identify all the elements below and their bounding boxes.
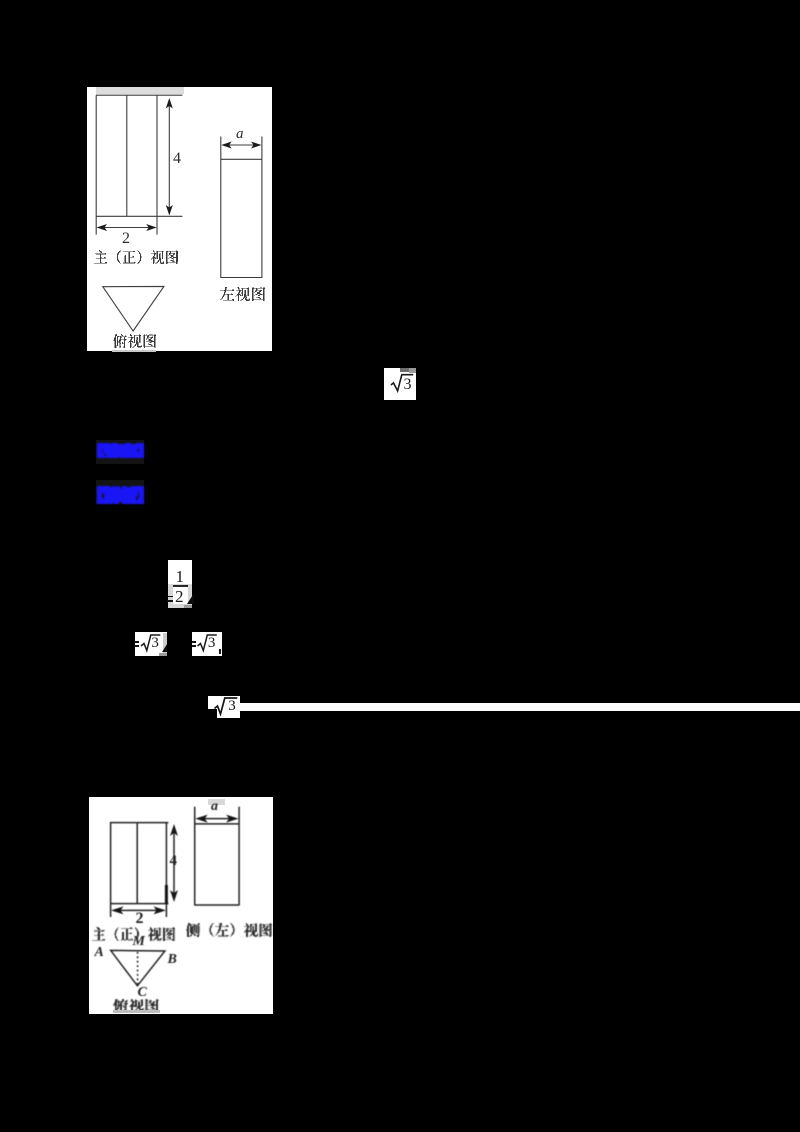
black wedge fragment (angle A) at right <box>187 594 194 604</box>
dark notch bottom-left <box>208 709 217 718</box>
fig2 front view right side <box>165 823 167 917</box>
fig2 side view top line <box>194 823 238 825</box>
fig2 dim line 4 vertical <box>173 829 175 897</box>
scan artifact gray strip <box>96 87 184 94</box>
lower gray half <box>168 584 192 608</box>
equals sign fragment at left <box>167 596 173 598</box>
side view bottom line <box>221 277 262 279</box>
blue text da-an <box>97 443 144 458</box>
dim line 2 horizontal <box>101 227 153 229</box>
equals fragment left <box>134 641 139 643</box>
arrowhead 2 right <box>146 224 157 231</box>
arrowhead a right <box>251 142 262 149</box>
label top-view fig2 <box>113 999 159 1011</box>
fig2 front view middle line <box>136 823 138 904</box>
fig2 dim line a horizontal <box>199 818 235 820</box>
label left-view (zuoshitu) fig1 <box>220 287 265 301</box>
fig2 dim line 2 horizontal <box>115 910 162 912</box>
fig2 arrowhead a left <box>195 815 208 823</box>
denominator 2 <box>175 587 184 607</box>
fig2 right side thick lower segment <box>164 885 167 904</box>
side view left line <box>220 137 222 279</box>
dim line 4 vertical <box>168 104 170 211</box>
dim line a horizontal <box>226 144 257 146</box>
arrowhead 4 up <box>166 98 173 109</box>
fig2 front view bottom line <box>109 903 167 905</box>
front view top line <box>96 94 182 96</box>
figure 1: three-view drawing image (top) <box>87 87 272 351</box>
blue text jie-xi <box>97 486 144 504</box>
fig2 side view right line <box>238 807 240 906</box>
fig2 label A <box>95 945 104 961</box>
front view right side <box>156 95 158 234</box>
gray underline under fushitu fig2 <box>113 1010 160 1013</box>
fig2 arrowhead 4 up <box>170 824 178 836</box>
formula image sqrt(3) no.4 <box>208 696 240 719</box>
fig2 label B <box>168 952 177 968</box>
equals fragment left <box>192 641 197 643</box>
fig2 label 4 <box>170 853 178 870</box>
bottom right gray <box>159 653 167 657</box>
formula image sqrt(3) no.3 with = fragment <box>192 632 221 656</box>
long white horizontal bar <box>240 703 800 711</box>
gray smudge above label a fig2 <box>208 799 225 805</box>
gray patch right <box>163 633 167 653</box>
analysis tag box (jie-xi) blue <box>96 480 144 504</box>
fig2 label C <box>138 985 147 1001</box>
answer tag box (da-an) blue <box>96 440 144 465</box>
arrowhead 4 down <box>166 205 173 216</box>
formula image sqrt(3) no.1 <box>384 368 416 401</box>
fraction bar <box>173 585 188 587</box>
front view middle line <box>126 95 128 216</box>
top view triangle <box>103 286 164 331</box>
arrowhead a left <box>221 142 232 149</box>
formula image sqrt(3) no.2 with = fragment <box>135 632 167 656</box>
fig2 front view left side <box>109 823 111 917</box>
label 4 <box>173 150 181 168</box>
bottom right gray patch <box>184 605 192 609</box>
fig2 dotted median M to C <box>136 952 138 985</box>
fig2 label a <box>211 799 218 815</box>
front view left side <box>95 95 97 234</box>
label 2 <box>122 230 130 248</box>
label a <box>236 126 244 143</box>
arrowhead 2 left <box>97 224 108 231</box>
fig2 top view triangle <box>110 951 164 986</box>
fig2 front view top line <box>109 822 167 824</box>
fig2 side view left line <box>193 807 195 906</box>
label side-view (ce-zuo-shitu) fig2 <box>186 923 272 937</box>
formula image fraction 1/2 <box>168 560 192 609</box>
label front-view fig2 <box>92 927 175 941</box>
front view rectangle and dimension lines <box>87 87 272 351</box>
numerator 1 <box>176 567 185 587</box>
gray underline under fushitu fig1 <box>112 350 156 353</box>
fig2 arrowhead 2 right <box>153 907 166 915</box>
comma fragment bottom right <box>219 649 221 654</box>
side view right line <box>261 137 263 279</box>
figure 2: three-view drawing image (bottom, blurry) <box>89 797 274 1014</box>
fig2 arrowhead a right <box>226 815 239 823</box>
fig2 side view bottom line <box>194 904 238 906</box>
inner white box around 2 <box>173 587 188 604</box>
fig2 arrowhead 2 left <box>111 907 124 915</box>
side view top line <box>221 158 262 160</box>
label top-view (fushitu) fig1 <box>113 334 156 348</box>
fig2 label M <box>133 934 145 950</box>
dark wedge right (angle) <box>162 644 167 652</box>
figure 2 linework <box>89 797 274 1014</box>
front view bottom line <box>96 215 182 217</box>
fig2 label 2 <box>136 910 144 928</box>
label front-view (zhu-zheng-shitu) fig1 <box>94 250 178 264</box>
fig2 arrowhead 4 down <box>170 890 178 902</box>
